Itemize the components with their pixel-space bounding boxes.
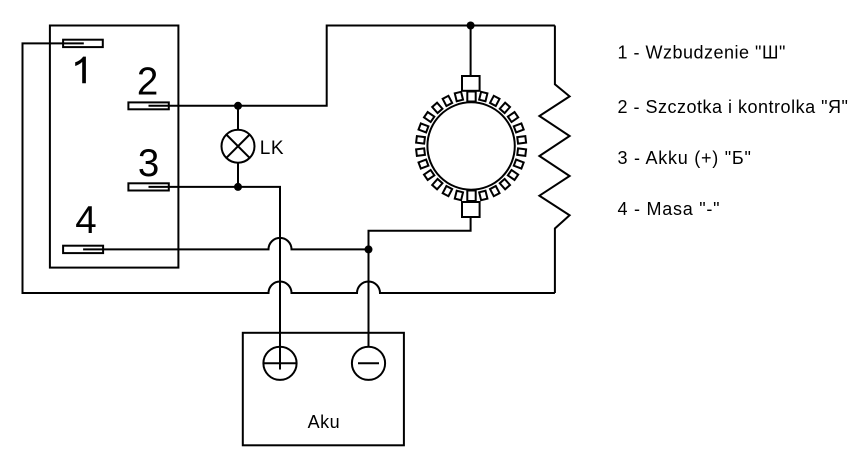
svg-text:3: 3	[138, 142, 159, 185]
svg-text:Aku: Aku	[308, 412, 341, 432]
svg-text:1 - Wzbudzenie "Ш": 1 - Wzbudzenie "Ш"	[618, 42, 786, 62]
svg-text:2: 2	[137, 61, 158, 104]
svg-text:4: 4	[75, 199, 96, 242]
svg-text:3 - Akku (+) "Б": 3 - Akku (+) "Б"	[618, 148, 752, 168]
svg-text:4 - Masa "-": 4 - Masa "-"	[618, 199, 721, 219]
svg-text:2 - Szczotka i kontrolka "Я": 2 - Szczotka i kontrolka "Я"	[618, 97, 849, 117]
svg-text:LK: LK	[260, 138, 284, 159]
